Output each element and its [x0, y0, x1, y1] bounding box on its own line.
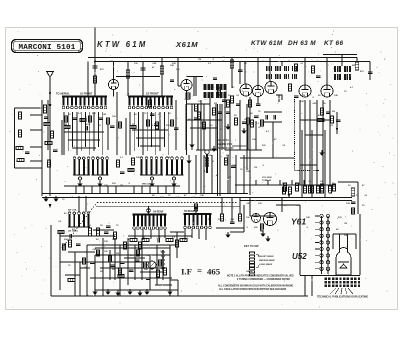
- U52 anode wire 2: [347, 234, 349, 249]
- switch S2 contact wire: [151, 112, 153, 147]
- resistor R3: [16, 146, 23, 149]
- resistor R77: [114, 232, 117, 239]
- svg-text:1M: 1M: [120, 185, 123, 187]
- input spine wire 2: [47, 100, 49, 150]
- svg-text:S2 FRONT: S2 FRONT: [146, 93, 159, 96]
- AF link wire 6: [100, 267, 112, 269]
- resistor R72: [83, 258, 86, 264]
- capacitor C50: [120, 262, 125, 264]
- AVC link wire: [240, 157, 294, 159]
- capacitor C41: [266, 115, 268, 120]
- svg-text:2M: 2M: [214, 103, 217, 105]
- osc link wire 3: [186, 119, 222, 121]
- junction stage1 bus: [94, 61, 96, 63]
- valve V6 small envelope: [252, 214, 261, 223]
- resistor R38: [166, 239, 173, 242]
- resistor R95: [239, 214, 242, 221]
- AF top link wire: [60, 235, 115, 237]
- wire: [247, 124, 249, 150]
- wave-change switch bank S2 front: [128, 97, 173, 109]
- wire: [225, 149, 262, 151]
- coupling bundle wire: [329, 100, 331, 185]
- ground det 2: [241, 128, 246, 134]
- svg-text:1K: 1K: [100, 225, 103, 227]
- svg-text:5K: 5K: [234, 115, 237, 117]
- switch lower wire: [142, 229, 144, 240]
- left frame wire: [14, 108, 16, 168]
- svg-text:33K: 33K: [160, 197, 164, 199]
- wire: [114, 238, 116, 280]
- switch S2 contact wire: [129, 112, 131, 155]
- oscillator section wire: [197, 104, 199, 150]
- capacitor C25: [110, 126, 115, 128]
- svg-text:1K: 1K: [320, 181, 323, 183]
- resistor R92: [137, 250, 140, 256]
- valve V3b envelope: [253, 86, 264, 97]
- capacitor C30: [194, 118, 199, 120]
- svg-text:33K: 33K: [296, 205, 300, 207]
- resistor R51: [119, 268, 122, 275]
- drop wire b: [231, 198, 233, 223]
- resistor R57: [119, 122, 122, 128]
- switch S2 contact wire: [133, 112, 135, 151]
- resistor R6: [44, 123, 50, 126]
- wavechange marker C: [194, 208, 198, 212]
- wire: [176, 232, 178, 258]
- resistor R18: [225, 158, 228, 165]
- wavechange marker B: [147, 209, 151, 213]
- ground AF 6: [115, 290, 120, 296]
- lower bank feed wire 2: [85, 196, 87, 212]
- wire: [249, 198, 251, 217]
- switch S1 contact wire: [76, 112, 78, 155]
- wire: [276, 204, 300, 206]
- osc link wire 2: [226, 149, 240, 151]
- oscillator lower wire: [219, 155, 221, 194]
- bottom chassis wire: [51, 295, 308, 297]
- link wire lower: [216, 227, 244, 229]
- resistor R60: [171, 120, 174, 126]
- wire: [369, 62, 371, 81]
- resistor R80: [249, 100, 252, 107]
- capacitor C2: [44, 117, 49, 119]
- svg-text:50K: 50K: [300, 101, 304, 103]
- dashed gang link diagonal: [62, 203, 97, 249]
- resistor R11: [65, 116, 68, 122]
- AF mesh wire 3: [100, 267, 163, 269]
- aerial coil L2 bank: [92, 157, 109, 175]
- resistor R9: [48, 160, 51, 167]
- screen bus wire: [235, 184, 335, 186]
- svg-text:5K: 5K: [220, 129, 223, 131]
- wire: [170, 231, 184, 233]
- switch S2 contact wire: [155, 112, 157, 155]
- wire: [269, 58, 271, 82]
- capacitor C7: [120, 172, 125, 174]
- resistor R40: [261, 224, 264, 230]
- svg-text:2M: 2M: [332, 111, 335, 113]
- switch wafer S7 column: [162, 251, 164, 269]
- resistor R35: [352, 208, 355, 214]
- svg-text:X61M: X61M: [175, 40, 198, 49]
- svg-text:VOL 500K: VOL 500K: [262, 177, 272, 179]
- resistor R12: [80, 119, 86, 122]
- svg-text:5K: 5K: [244, 63, 247, 65]
- wire: [94, 255, 96, 296]
- oscillator lower wire: [227, 155, 229, 194]
- capacitor C9: [231, 166, 236, 168]
- wire: [86, 245, 88, 296]
- oscillator lower wire: [203, 155, 205, 194]
- wire: [355, 234, 357, 249]
- wire: [281, 62, 283, 67]
- resistor R28b: [296, 183, 299, 191]
- svg-text:2M: 2M: [352, 65, 355, 67]
- capacitor C53: [70, 234, 72, 239]
- svg-text:LONG WAVE: LONG WAVE: [259, 263, 273, 266]
- switch S1 contact wire: [80, 112, 82, 151]
- bus wire: [240, 200, 340, 202]
- V2 cathode wire: [186, 91, 188, 156]
- resistor R93: [159, 260, 162, 266]
- svg-text:1K: 1K: [316, 61, 319, 63]
- coupling jog wire: [300, 119, 330, 121]
- V3 grid wire: [244, 62, 246, 85]
- capacitor C29: [150, 114, 155, 116]
- ground below L1: [77, 181, 82, 187]
- svg-text:KTW 61M: KTW 61M: [97, 40, 148, 49]
- AVC wire: [224, 95, 226, 150]
- resistor R43: [309, 186, 312, 193]
- V4 anode wire: [304, 58, 306, 86]
- left tie wire 1: [30, 114, 42, 116]
- svg-text:1K: 1K: [250, 113, 253, 115]
- switch S1 contact wire: [97, 112, 99, 147]
- wire: [155, 284, 172, 286]
- resistor R54: [198, 112, 201, 119]
- wire: [246, 104, 248, 170]
- svg-text:10K: 10K: [306, 217, 310, 219]
- ground AF 2: [127, 289, 132, 295]
- capacitor C3: [53, 150, 58, 152]
- wire: [102, 238, 104, 296]
- resistor R82: [128, 169, 134, 172]
- switch lower wire: [150, 229, 152, 239]
- wire: [324, 130, 326, 198]
- capacitor C24: [218, 112, 223, 114]
- oscillator section wire: [191, 104, 193, 150]
- switch S1 contact wire: [93, 112, 95, 151]
- resistor R94: [221, 214, 224, 221]
- wire: [357, 182, 359, 214]
- ground lower mid: [225, 232, 230, 238]
- resistor R17: [205, 158, 208, 166]
- capacitor C42: [274, 115, 276, 120]
- svg-text:S1 FRONT: S1 FRONT: [80, 93, 93, 96]
- wire: [264, 111, 282, 113]
- U52 anode wire 1: [339, 234, 341, 249]
- svg-text:1M: 1M: [344, 223, 347, 225]
- resistor R42: [289, 187, 292, 194]
- svg-text:I.F: I.F: [181, 267, 192, 277]
- wire: [330, 200, 352, 202]
- lower bank feed wire: [78, 196, 80, 212]
- resistor R10 HT dropper: [93, 76, 96, 83]
- svg-text:ALL OSCILLATOR OPERATION DESCR: ALL OSCILLATOR OPERATION DESCRIPTION SEE…: [219, 288, 286, 291]
- resistor R48: [139, 242, 142, 249]
- detector wire: [249, 97, 251, 195]
- capacitor C34: [336, 120, 341, 122]
- screen bus stub wire: [303, 180, 305, 185]
- svg-text:KEY TO SW: KEY TO SW: [244, 244, 259, 248]
- svg-text:NOTE 1 ALL/TH PRESSED INDICA: NOTE 1 ALL/TH PRESSED INDICATES CONDENSE…: [227, 275, 294, 278]
- lower aerial coil bank: [68, 212, 90, 227]
- capacitor C37: [135, 260, 140, 262]
- capacitor C28: [174, 128, 179, 130]
- resistor R33: [251, 120, 254, 127]
- capacitor C52: [230, 222, 235, 224]
- capacitor C17: [226, 112, 231, 114]
- switch lower wire: [134, 229, 136, 238]
- svg-text:2M: 2M: [110, 61, 113, 63]
- wire: [134, 245, 136, 280]
- wire: [272, 122, 274, 158]
- screened lead wire 1: [217, 104, 219, 196]
- svg-text:TONE .05: TONE .05: [262, 180, 272, 182]
- stage2 side wire: [125, 118, 127, 155]
- wire: [264, 121, 282, 123]
- capacitor C20: [158, 238, 160, 243]
- resistor R90: [97, 250, 100, 256]
- resistor R30b: [333, 184, 336, 191]
- resistor R63: [203, 122, 206, 129]
- ground below L4: [171, 181, 176, 187]
- stage2 link wire: [132, 129, 168, 131]
- coupling bundle wire: [316, 100, 318, 185]
- ground bus 2: [53, 196, 58, 202]
- wire: [239, 100, 241, 150]
- screen bus stub wire: [279, 180, 281, 185]
- svg-text:50K: 50K: [92, 113, 96, 115]
- switch S2 contact wire: [142, 112, 144, 155]
- capacitor C4 decoupling: [93, 66, 98, 68]
- ground osc: [189, 142, 194, 148]
- switch S2 contact wire: [163, 112, 165, 147]
- selector chain wire 1: [321, 216, 323, 274]
- svg-text:1K: 1K: [160, 251, 163, 253]
- wire: [80, 267, 90, 269]
- trimmer contact L4: [172, 177, 175, 180]
- chassis bus wire: [42, 193, 248, 195]
- left tie wire 3: [30, 146, 42, 148]
- screen bus stub wire: [243, 180, 245, 185]
- wire to output: [338, 181, 358, 183]
- wire: [141, 238, 143, 280]
- V2 anode feed wire: [177, 58, 179, 87]
- stage2 return wire: [149, 186, 151, 194]
- resistor R36: [130, 239, 137, 242]
- screen bus stub wire: [291, 180, 293, 185]
- switch S1 contact wire: [102, 112, 104, 155]
- resistor R68: [318, 119, 324, 122]
- AVC arrowhead: [336, 128, 338, 132]
- capacitor C8: [141, 68, 146, 70]
- svg-text:10K: 10K: [216, 91, 220, 93]
- switch lower wire: [198, 229, 200, 239]
- svg-text:U52: U52: [292, 252, 307, 261]
- wire: [359, 214, 361, 245]
- switch lower wire: [205, 229, 207, 240]
- S4 feed wire: [148, 206, 150, 214]
- switch S2 contact wire: [146, 112, 148, 151]
- V2 elbow wire: [178, 85, 181, 87]
- ground AF 3: [144, 289, 149, 295]
- switch S1 contact wire: [63, 112, 65, 155]
- capacitor C18: [242, 122, 247, 124]
- switch lower wire: [164, 229, 166, 238]
- key table switch strip: [250, 252, 255, 276]
- svg-text:10K: 10K: [104, 185, 108, 187]
- switch lower wire: [191, 229, 193, 238]
- lower row feed bus wire: [96, 205, 240, 207]
- resistor R28: [311, 186, 314, 193]
- scan noise speckle: [9, 30, 395, 307]
- resistor R53: [213, 108, 216, 115]
- wire: [65, 274, 80, 276]
- stage1 return wire: [91, 186, 93, 194]
- svg-text:1M: 1M: [302, 95, 305, 97]
- table rule wire 2: [232, 149, 248, 151]
- switch S2 contact wire: [138, 112, 140, 147]
- capacitor C33: [326, 112, 331, 114]
- stage2 wire: [161, 58, 163, 97]
- trimmer contact L1: [78, 177, 81, 180]
- AF mesh wire 1: [95, 247, 170, 249]
- svg-text:33K: 33K: [232, 165, 236, 167]
- oscillator section wire: [203, 104, 205, 150]
- wire: [311, 130, 313, 198]
- resistor R52: [68, 279, 75, 282]
- svg-text:50K: 50K: [136, 157, 140, 159]
- V2 anode wire: [187, 76, 204, 78]
- AF mesh wire 2: [87, 261, 150, 263]
- aerial arrowhead: [49, 104, 52, 108]
- trimmer contact L2: [98, 177, 101, 180]
- capacitor C12: [222, 100, 227, 102]
- wire: [304, 275, 306, 296]
- resistor R29b: [321, 184, 324, 191]
- ground right bundle: [319, 150, 324, 156]
- osc long wire: [200, 100, 202, 194]
- stage1 screen wire: [87, 62, 89, 97]
- wire: [127, 238, 129, 285]
- RF coil L4 bank: [166, 157, 184, 175]
- AF link wire 7: [140, 271, 163, 273]
- drop wire c: [239, 198, 241, 215]
- HT supply bus wire: [88, 57, 357, 59]
- aerial junction: [49, 92, 51, 94]
- wire: [231, 58, 233, 89]
- svg-text:GRAM: GRAM: [246, 270, 253, 273]
- switch bank S5 rear: [184, 214, 212, 229]
- left bottom link wire: [15, 167, 43, 169]
- wire: [169, 245, 171, 296]
- capacitor C31: [236, 104, 241, 106]
- wire: [59, 230, 61, 290]
- wire: [230, 231, 244, 233]
- svg-text:465: 465: [207, 267, 221, 277]
- svg-text:TECHNICAL PUBLICATIONS DUPLICA: TECHNICAL PUBLICATIONS DUPLICATING: [317, 296, 368, 299]
- svg-text:33K: 33K: [344, 235, 348, 237]
- title box MARCONI 5101: [12, 40, 83, 53]
- V1 grid wire: [116, 92, 118, 110]
- wire: [257, 58, 259, 86]
- switch bank S4 rear: [133, 215, 167, 230]
- svg-text:2 TUNING CONDENSER — CONDENSER: 2 TUNING CONDENSER — CONDENSER NOTED: [237, 279, 290, 281]
- svg-text:33K: 33K: [104, 241, 108, 243]
- wire: [175, 100, 177, 150]
- resistor R26: [295, 64, 298, 71]
- wire: [341, 55, 343, 67]
- svg-text:KT 66: KT 66: [324, 40, 343, 47]
- capacitor C26: [86, 126, 88, 131]
- oscillator lower wire: [235, 155, 237, 194]
- capacitor C51: [146, 278, 151, 280]
- stage2 return wire: [133, 186, 135, 194]
- oscillator trimmer T1: [205, 150, 209, 173]
- switch S1 contact wire: [85, 112, 87, 147]
- ground det 1: [225, 124, 230, 130]
- diode load bracket: [276, 95, 282, 102]
- RF coil L3 bank: [140, 157, 163, 175]
- oscillator lower wire: [243, 155, 245, 194]
- svg-text:1K: 1K: [188, 119, 191, 121]
- resistor R8: [45, 142, 52, 145]
- capacitor C22: [129, 270, 134, 272]
- AF link wire 3: [68, 251, 95, 253]
- svg-text:DH 63 M: DH 63 M: [288, 40, 316, 47]
- wire: [93, 229, 114, 231]
- lower link wire: [128, 235, 192, 237]
- resistor R1 aerial filter: [18, 112, 21, 119]
- S5 feed wire: [195, 206, 197, 214]
- svg-text:50K: 50K: [166, 125, 170, 127]
- svg-text:33K: 33K: [250, 123, 254, 125]
- svg-text:2M: 2M: [226, 155, 229, 157]
- valve V3a envelope: [240, 84, 252, 96]
- resistor R27: [304, 186, 307, 193]
- svg-text:S4 REAR: S4 REAR: [153, 211, 164, 214]
- bus junction arrow: [288, 194, 291, 197]
- mains transformer terminal strip: [325, 278, 361, 287]
- coupling jog wire 2: [305, 134, 323, 136]
- dashed gang link horizontal run: [97, 202, 238, 204]
- capacitor C32: [254, 116, 259, 118]
- AF link wire 2: [95, 254, 170, 256]
- drop wire a: [221, 198, 223, 215]
- coupling bundle wire: [304, 100, 306, 185]
- resistor R22: [230, 60, 233, 68]
- mains lead fan-out: [330, 288, 353, 294]
- AF mesh wire 4: [90, 277, 172, 279]
- valve V2 X61M envelope: [181, 80, 192, 91]
- left top link wire: [15, 107, 43, 109]
- wire: [107, 124, 109, 150]
- resistor R37: [142, 239, 149, 242]
- stage1 return wire: [107, 186, 109, 194]
- resistor R29: [321, 186, 324, 193]
- svg-text:10K: 10K: [252, 139, 256, 141]
